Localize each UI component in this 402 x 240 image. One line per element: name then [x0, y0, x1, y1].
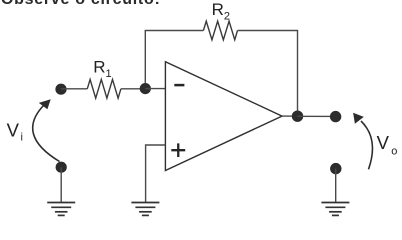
wire: output node to Vo upper terminal [298, 115, 336, 117]
wire: op-amp plus input left and down to ground [146, 145, 166, 202]
resistor R1 [87, 79, 121, 98]
svg-text:Vo: Vo [377, 132, 398, 158]
resistor R2 [203, 21, 237, 40]
wire: inverting node to op-amp minus input [145, 88, 165, 90]
wire: Vi terminal to R1 left lead [61, 88, 87, 90]
wire: inverting node up to feedback corner [144, 31, 146, 89]
arrow: Vi polarity arc [33, 105, 60, 162]
svg-text:R1: R1 [93, 57, 111, 79]
ground: middle [131, 203, 159, 216]
node: output junction [292, 111, 303, 122]
wire: R1 right lead to inverting node [121, 88, 145, 90]
title text (clipped at top): Observe o circuito: [1, 0, 161, 9]
wire: R2 right lead to corner, down to output node [238, 31, 298, 117]
node: Vi lower terminal [56, 162, 67, 173]
arrow: Vi arrowhead [39, 99, 51, 109]
wire: Vi lower terminal down to ground [60, 167, 62, 202]
node: Vi upper terminal [55, 84, 66, 95]
node: inverting input junction [140, 83, 151, 94]
op-amp minus sign [174, 84, 184, 87]
svg-text:Vi: Vi [7, 119, 23, 143]
op-amp U1 triangle [165, 62, 282, 171]
wire: feedback corner to R2 left lead [145, 30, 204, 32]
wire: Vo lower terminal down to ground [335, 169, 337, 203]
ground: right [321, 203, 349, 216]
node: Vo upper terminal [330, 111, 341, 122]
arrow: Vo polarity arc [361, 121, 372, 169]
svg-text:R2: R2 [212, 0, 230, 22]
arrow: Vo arrowhead [353, 113, 364, 124]
op-amp plus sign [171, 143, 185, 157]
ground: left [47, 203, 75, 216]
wire: op-amp output to node [282, 115, 298, 117]
node: Vo lower terminal [330, 163, 341, 174]
